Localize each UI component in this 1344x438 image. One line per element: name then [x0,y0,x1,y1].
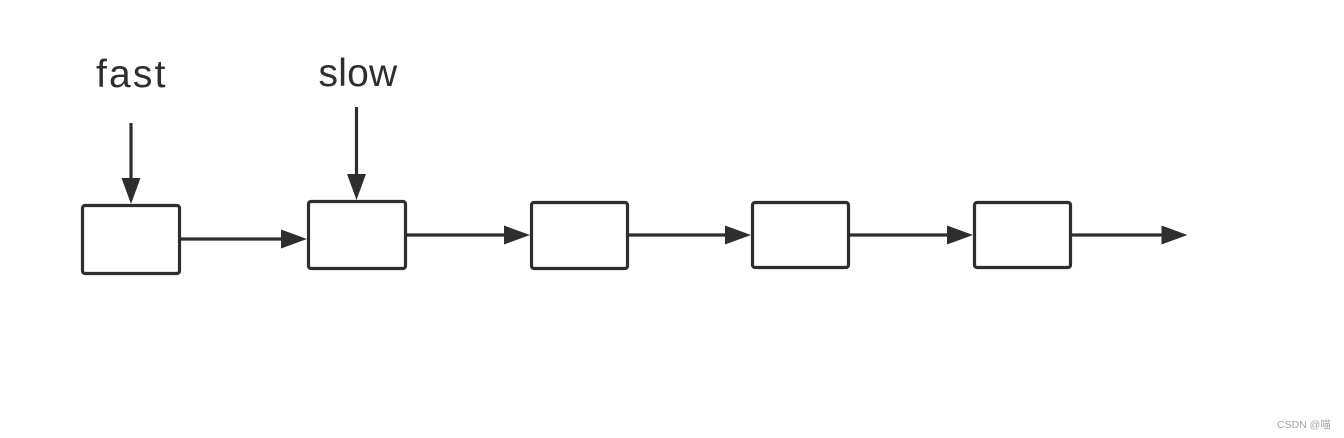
next arrow 2 to 3 [407,226,530,245]
node box 1 [83,206,180,274]
next arrow 1 to 2 [181,230,307,249]
node box 2 [309,202,406,269]
slow pointer arrow [347,107,366,200]
tail arrow out of box 5 [1072,226,1188,245]
svg-text:fast: fast [96,53,168,96]
node box 4 [753,203,849,268]
fast pointer arrow [122,123,141,204]
svg-text:slow: slow [319,52,398,95]
svg-text:CSDN @喵: CSDN @喵 [1277,419,1331,431]
node box 3 [532,203,628,269]
next arrow 3 to 4 [629,226,751,245]
next arrow 4 to 5 [850,226,973,245]
node box 5 [975,203,1071,268]
